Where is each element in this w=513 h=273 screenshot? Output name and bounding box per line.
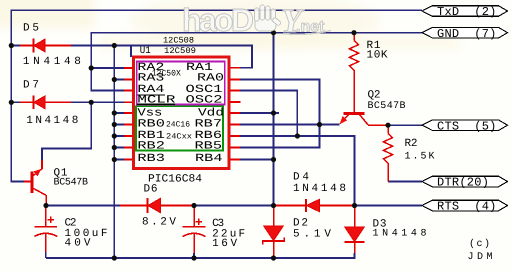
pin MCLR underline (137, 103, 175, 105)
D3 bottom lead (354, 242, 356, 253)
D2 bottom lead (273, 241, 275, 258)
pin RA4 underline (137, 94, 164, 96)
wire Vss pin branch (114, 112, 124, 114)
wire Vdd pin wire (228, 112, 240, 114)
resistor R2 1.5K (384, 134, 393, 164)
wire Q2 collector node to CTS port (388, 124, 422, 126)
wire D6 anode to C3 node (161, 205, 195, 207)
diode D7 1N4148 (33, 96, 35, 110)
svg-text:RTS (4): RTS (4) (437, 200, 497, 214)
port DTR(20) (422, 176, 508, 187)
wire D5 net: left rail to D5 (11, 45, 20, 47)
svg-text:16V: 16V (212, 238, 237, 250)
wire D2 node to D4 cathode (274, 205, 306, 207)
R2 bottom lead (387, 163, 389, 182)
IC magenta 12C50X section box (137, 61, 225, 104)
junction dots (9, 43, 14, 48)
wire RB4 pin wire (228, 159, 240, 161)
svg-text:10K: 10K (367, 50, 388, 62)
svg-text:BC547B: BC547B (54, 178, 89, 189)
resistor R1 10K (350, 41, 359, 71)
R1 bottom lead / Q2 base lead (353, 70, 355, 112)
wire D5 anode to B vertical (45, 45, 71, 47)
capacitor C3 plates (183, 226, 206, 228)
wire Q1 emitter riser to MCLR node (42, 102, 91, 160)
IC green 24Cxx section box (136, 106, 223, 150)
svg-text:BC547B: BC547B (368, 101, 406, 112)
wire B vertical (Vss net) (113, 46, 115, 259)
wire RB6 pin wire, corner down to D3 node (228, 135, 240, 137)
svg-text:RB7: RB7 (195, 119, 223, 131)
wire RB0 pin branch (114, 124, 124, 126)
svg-text:GND (7): GND (7) (437, 27, 497, 41)
wire main bus left segment (Q1 collector node to D6) (46, 205, 120, 207)
svg-text:MCLR: MCLR (137, 95, 176, 107)
svg-text:40V: 40V (65, 237, 91, 249)
wire main bus C3 to D2 column (194, 205, 274, 207)
R2 top lead (387, 125, 389, 133)
wire RB5 pin wire + link up (228, 147, 240, 149)
capacitor C2 100uF 40V (45, 206, 47, 227)
wire D7 anode to MCLR pin (45, 101, 71, 103)
port RTS (4) (422, 200, 508, 211)
watermark haoDIY.net logo (182, 2, 331, 40)
port TxD (2) (422, 6, 508, 17)
op IC U1 PIC16C84 red outline box (133, 57, 229, 169)
zener diode D2 5.1V (264, 226, 284, 241)
svg-text:JDM: JDM (468, 252, 493, 263)
svg-text:CTS (5): CTS (5) (437, 119, 497, 133)
diode D5 1N4148 (33, 39, 35, 53)
wire RA2 pin branch (91, 67, 124, 69)
wire RB7 pin wire to Q2 emitter (228, 124, 240, 126)
svg-text:OSC2: OSC2 (186, 95, 223, 107)
R1 top lead (353, 33, 355, 41)
wire D5 row continuing to RA1 link corner (114, 46, 252, 68)
zener diode D6 8.2V (147, 198, 149, 213)
svg-text:Q2: Q2 (368, 90, 381, 102)
svg-text:RA0: RA0 (197, 73, 224, 85)
wire RA0 pin wire + link down to RB7 row (228, 79, 240, 81)
diode D3 1N4148 (345, 227, 365, 242)
D2 top lead (273, 206, 275, 226)
svg-text:haoD: haoD (182, 2, 254, 38)
svg-text:RB4: RB4 (195, 153, 223, 165)
diode D4 1N4148 (305, 199, 307, 212)
transistor Q1 BC547B (31, 172, 34, 194)
wire RB1 pin branch (114, 135, 124, 137)
capacitor C2 plates (34, 226, 57, 228)
svg-text:12C50X: 12C50X (152, 69, 181, 79)
svg-text:DTR(20): DTR(20) (437, 176, 489, 190)
svg-text:24Cxx: 24Cxx (166, 133, 192, 142)
svg-text:R2: R2 (405, 138, 418, 150)
wire RB3 pin branch (114, 159, 124, 161)
svg-text:RB0: RB0 (137, 119, 165, 131)
svg-text:RB3: RB3 (137, 153, 165, 165)
wire GND line: to corner + A vertical + RA4 pin wire (91, 33, 422, 91)
capacitor C3 22uF 16V (193, 206, 195, 227)
port CTS (5) (422, 120, 508, 131)
D3 top lead (354, 206, 356, 227)
wire D3 node to RTS port (355, 205, 423, 207)
port GND (7) (422, 27, 508, 38)
svg-text:TxD (2): TxD (2) (437, 5, 497, 19)
wire bottom rail (Vss return) (46, 257, 356, 259)
wire RB2 pin branch (114, 147, 124, 149)
svg-text:RB2: RB2 (137, 141, 165, 153)
wire U1 box left stub (130, 46, 132, 58)
wire OSC2 stub (228, 101, 241, 103)
svg-text:12C509: 12C509 (164, 46, 196, 56)
wire GND/Vdd column vertical (273, 33, 275, 206)
wire OSC1 pin wire + link down to RB6 row (228, 90, 240, 92)
svg-text:U1: U1 (140, 46, 151, 57)
wire D4 anode to D3 node (320, 205, 355, 207)
transistor Q2 BC547B (344, 112, 365, 115)
wire D7/MCLR net: left rail to D7 (11, 101, 20, 103)
wire TxD line: top rail + left rail + Q1 base (11, 10, 422, 181)
svg-text:24C16: 24C16 (166, 121, 190, 130)
wire R2 bottom corner to DTR port (388, 181, 422, 183)
svg-text:D6: D6 (144, 184, 158, 196)
svg-text:(c): (c) (469, 238, 490, 250)
svg-text:RB5: RB5 (195, 141, 223, 153)
svg-text:1.5K: 1.5K (405, 152, 435, 163)
wire RA3 pin branch (114, 79, 124, 81)
